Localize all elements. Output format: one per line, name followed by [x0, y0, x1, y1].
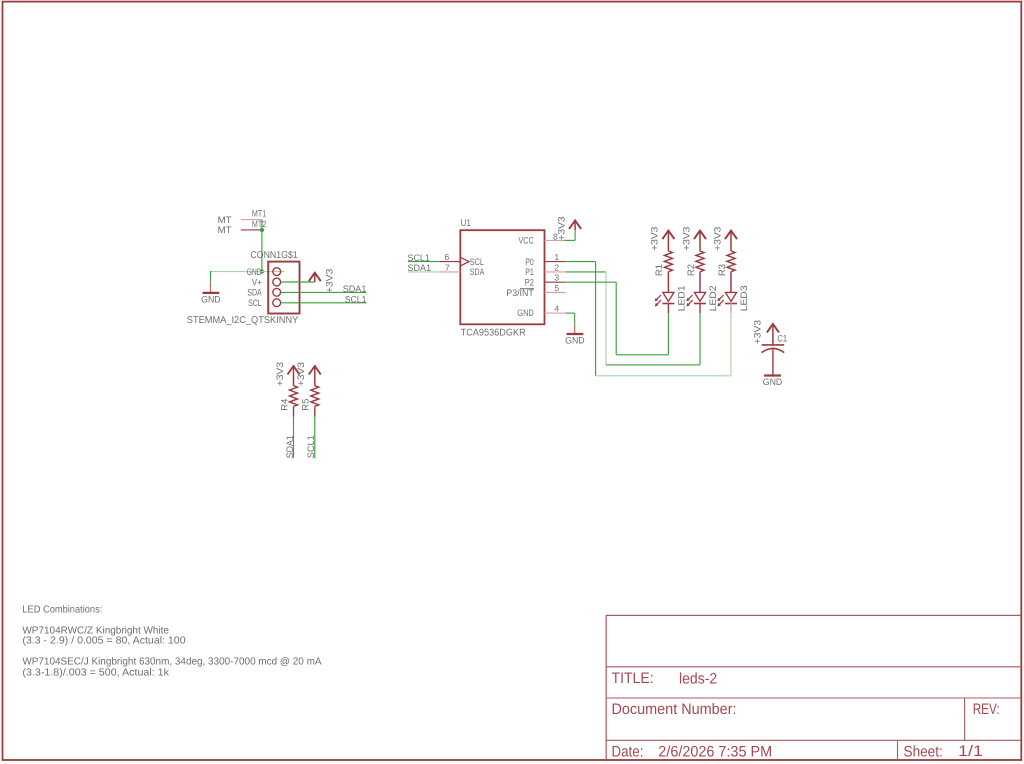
svg-text:6: 6	[445, 252, 450, 262]
wire R5 net	[314, 417, 316, 459]
connector pin circle GND	[273, 268, 281, 276]
svg-text:LED Combinations:: LED Combinations:	[22, 605, 102, 616]
svg-text:C1: C1	[777, 333, 787, 344]
wire SDA1 to pin 7	[408, 271, 439, 273]
wire C1 to ground	[772, 349, 774, 375]
svg-text:+3V3: +3V3	[752, 320, 763, 344]
pin stub 4 (GND)	[545, 312, 566, 314]
svg-text:CONN1G$1: CONN1G$1	[250, 250, 297, 261]
wire LED3 cathode stub	[730, 303, 732, 313]
pin stub 5 (P3/INT)	[545, 292, 566, 294]
wire P1 net	[566, 271, 606, 273]
svg-text:SCL1: SCL1	[345, 293, 367, 304]
svg-text:Date:: Date:	[612, 743, 644, 760]
svg-text:GND: GND	[517, 307, 534, 318]
wire LED2 cathode stub	[699, 303, 701, 313]
wire supply to R2	[699, 230, 701, 251]
supply +3V3 at C1	[767, 324, 779, 333]
pin stub 1 (P0)	[545, 261, 566, 263]
svg-text:WP7104SEC/J Kingbright 630nm,: WP7104SEC/J Kingbright 630nm, 34deg, 330…	[22, 656, 321, 667]
svg-text:SDA: SDA	[470, 266, 485, 277]
svg-text:GND: GND	[763, 376, 783, 387]
LED2 light arrows	[688, 295, 692, 299]
supply +3V3 at R3	[725, 231, 737, 240]
wire P1 horizontal	[606, 364, 700, 366]
connector pin circle SCL	[273, 299, 281, 307]
svg-text:7: 7	[445, 262, 450, 272]
pin stub 2 (P1)	[545, 271, 566, 273]
supply +3V3 at U1	[569, 220, 581, 229]
pin stub 6 (SCL)	[439, 261, 460, 263]
svg-text:U1: U1	[461, 218, 471, 229]
wire supply to R5	[314, 365, 316, 386]
wire P2 up to LED1	[667, 313, 669, 355]
svg-text:SDA1: SDA1	[284, 435, 295, 458]
wire supply to R1	[667, 230, 669, 251]
wire P0 net	[566, 261, 596, 263]
title block line below TITLE	[606, 697, 1021, 699]
ground symbol near connector	[203, 292, 220, 294]
clock triangle on SCL pin	[460, 257, 469, 266]
wire P0 horizontal bottom	[596, 375, 731, 377]
wire R1 to LED1	[667, 272, 669, 293]
ground symbol at U1	[567, 333, 584, 335]
capacitor C1 top plate	[762, 344, 785, 346]
svg-text:Document Number:: Document Number:	[612, 701, 737, 718]
wire P1 vertical	[605, 272, 607, 365]
svg-text:(3.3-1.8)/.003 = 500, Actual:: (3.3-1.8)/.003 = 500, Actual: 1k	[22, 667, 170, 678]
pin stub MT2	[241, 229, 262, 231]
connector body CONN1G$1	[268, 262, 299, 314]
wire LED1 cathode stub	[667, 303, 669, 313]
LED2 symbol	[694, 292, 705, 301]
svg-text:GND: GND	[201, 294, 221, 305]
svg-text:R1: R1	[653, 264, 664, 276]
junction dot at GND pin	[260, 269, 264, 273]
wire SCL net	[281, 302, 367, 304]
svg-text:2/6/2026 7:35 PM: 2/6/2026 7:35 PM	[658, 744, 772, 761]
resistor R3	[727, 251, 735, 272]
svg-text:SDA: SDA	[247, 287, 262, 298]
wire P1 up to LED2	[699, 313, 701, 365]
wire GND pin to ground	[566, 312, 575, 314]
pin stub MT1	[241, 219, 262, 221]
svg-text:LED1: LED1	[675, 285, 686, 311]
svg-text:+3V3: +3V3	[649, 227, 660, 251]
svg-text:SCL: SCL	[248, 297, 262, 308]
supply +3V3 at connector	[309, 273, 321, 282]
svg-text:SDA1: SDA1	[408, 262, 432, 273]
wire MT1 to MT2 junction	[261, 220, 263, 272]
connector pin circle SDA	[273, 288, 281, 296]
op IC body U1	[460, 230, 544, 324]
svg-text:+3V3: +3V3	[555, 216, 566, 240]
svg-text:2: 2	[554, 262, 559, 272]
wire VCC to +3V3	[564, 239, 575, 241]
wire R4 net	[293, 417, 295, 459]
title block Sheet separator	[897, 740, 899, 760]
wire SDA net	[281, 291, 367, 293]
supply +3V3 at R5	[309, 366, 321, 375]
wire GND pin to ground	[211, 271, 285, 273]
wire P2 horizontal	[616, 354, 668, 356]
svg-text:R3: R3	[716, 264, 727, 276]
pin stub below R5	[314, 406, 316, 416]
svg-text:R4: R4	[278, 399, 289, 411]
resistor R4	[290, 386, 298, 407]
svg-text:MT1: MT1	[252, 209, 266, 219]
svg-text:SDA1: SDA1	[343, 283, 367, 294]
wire supply to C1	[772, 323, 774, 345]
wire SCL1 to pin 6	[408, 261, 439, 263]
svg-text:4: 4	[554, 303, 559, 313]
wire supply to R4	[293, 365, 295, 386]
svg-text:MT2: MT2	[252, 219, 266, 229]
LED3 symbol	[725, 292, 736, 301]
svg-text:REV:: REV:	[973, 701, 1000, 718]
svg-text:+3V3: +3V3	[274, 362, 285, 386]
LED1 symbol	[663, 292, 674, 301]
svg-text:Sheet:: Sheet:	[904, 743, 943, 760]
svg-text:SCL1: SCL1	[305, 435, 316, 458]
svg-text:1: 1	[554, 252, 559, 262]
svg-text:LED2: LED2	[707, 285, 718, 311]
resistor R5	[311, 386, 319, 407]
svg-text:5: 5	[554, 283, 559, 293]
svg-text:3: 3	[554, 273, 559, 283]
svg-text:+3V3: +3V3	[295, 362, 306, 386]
LED1 light arrows	[657, 295, 661, 299]
supply +3V3 at R4	[288, 366, 300, 375]
svg-text:+3V3: +3V3	[711, 227, 722, 251]
svg-text:R2: R2	[685, 264, 696, 276]
pin stub 7 (SDA)	[439, 271, 460, 273]
pin stub 8 (VCC)	[545, 239, 565, 241]
svg-text:R5: R5	[300, 399, 311, 411]
svg-text:+3V3: +3V3	[324, 269, 335, 293]
title block outline	[606, 615, 1021, 759]
svg-text:MT: MT	[218, 224, 232, 235]
svg-text:1/1: 1/1	[958, 743, 983, 760]
wire V+ to +3V3	[281, 281, 315, 283]
svg-text:STEMMA_I2C_QTSKINNY: STEMMA_I2C_QTSKINNY	[187, 315, 299, 326]
wire R3 to LED3	[730, 272, 732, 293]
svg-text:V+: V+	[252, 276, 262, 287]
svg-text:TITLE:: TITLE:	[612, 670, 654, 687]
LED3 light arrows	[719, 295, 723, 299]
resistor R1	[664, 251, 672, 272]
wire P0 vertical	[595, 262, 597, 376]
resistor R2	[696, 251, 704, 272]
supply +3V3 at R2	[694, 231, 706, 240]
svg-text:TCA9536DGKR: TCA9536DGKR	[461, 327, 526, 338]
capacitor C1 bottom plate	[762, 348, 785, 352]
wire P0 up to LED3	[730, 313, 732, 376]
connector pin circle V+	[273, 278, 281, 286]
svg-text:(3.3 - 2.9) / 0.005 = 80, Actu: (3.3 - 2.9) / 0.005 = 80, Actual: 100	[22, 636, 186, 647]
ground pin near connector	[210, 282, 212, 292]
title block line above TITLE	[606, 666, 1021, 668]
svg-text:GND: GND	[565, 335, 585, 346]
svg-text:+3V3: +3V3	[680, 227, 691, 251]
ground symbol at C1	[764, 374, 781, 376]
title block line above Date	[606, 739, 1021, 741]
svg-text:GND: GND	[247, 266, 262, 277]
junction dot at MT2	[260, 228, 264, 232]
ground pin at U1	[574, 323, 576, 333]
overline on INT	[520, 288, 534, 290]
svg-text:LED3: LED3	[738, 285, 749, 311]
wire down to ground symbol	[210, 271, 212, 282]
pin stub 3 (P2)	[545, 281, 566, 283]
wire R2 to LED2	[699, 272, 701, 293]
wire P2 net	[566, 281, 617, 283]
wire P2 vertical	[615, 282, 617, 355]
title block REV separator	[964, 698, 966, 740]
svg-text:VCC: VCC	[518, 235, 534, 246]
wire supply to R3	[730, 230, 732, 251]
pin stub below R4	[293, 406, 295, 416]
svg-text:leds-2: leds-2	[679, 670, 717, 687]
supply +3V3 at R1	[662, 231, 674, 240]
